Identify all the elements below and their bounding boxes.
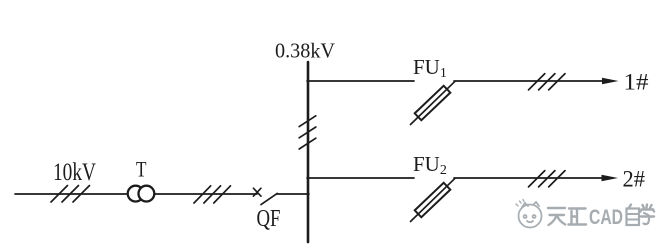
3-phase hash on busbar — [299, 116, 316, 149]
wire: branch 1 from busbar — [307, 80, 414, 82]
wire: 10kV incoming feeder line — [15, 193, 257, 195]
svg-text:0.38kV: 0.38kV — [275, 39, 335, 63]
transformer T (two-winding circles) — [128, 186, 155, 202]
watermark logo (cat face sketch) — [516, 200, 542, 228]
wire: branch 2 to arrow — [454, 177, 603, 179]
glyph 天 — [548, 208, 565, 225]
svg-text:QF: QF — [257, 206, 281, 232]
3-phase hash on branch 1 — [529, 74, 566, 90]
svg-text:T: T — [136, 157, 147, 182]
watermark text 天正CAD自学 — [548, 208, 586, 225]
glyph 学 — [641, 205, 655, 225]
breaker QF blade — [261, 193, 277, 204]
wire: branch 2 from busbar — [307, 177, 414, 179]
svg-text:FU2: FU2 — [413, 152, 447, 178]
svg-text:10kV: 10kV — [53, 159, 96, 186]
glyph 自 — [627, 205, 640, 226]
3-phase hash between transformer and breaker — [194, 186, 231, 203]
fuse FU1 body — [415, 86, 451, 121]
svg-text:CAD: CAD — [589, 205, 623, 229]
wire: breaker to busbar — [277, 193, 309, 195]
3-phase hash on branch 2 — [529, 171, 566, 187]
arrowhead feeder 1 — [602, 78, 619, 85]
breaker QF cross mark — [253, 188, 261, 196]
fuse FU1 lead (diagonal) — [411, 81, 456, 124]
3-phase hash on incoming line — [51, 186, 90, 203]
wire: branch 1 to arrow — [454, 80, 603, 82]
svg-text:2#: 2# — [623, 166, 646, 191]
glyph 正 — [569, 209, 587, 225]
svg-text:1#: 1# — [624, 69, 650, 94]
busbar 0.38kV (vertical) — [307, 62, 310, 242]
svg-text:FU1: FU1 — [413, 55, 447, 81]
fuse FU2 lead (diagonal) — [411, 178, 456, 221]
arrowhead feeder 2 — [602, 175, 619, 182]
fuse FU2 body — [415, 183, 451, 218]
